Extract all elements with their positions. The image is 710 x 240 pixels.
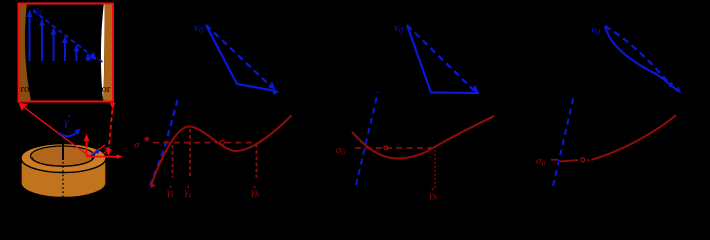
operating line (blue dashed) — [150, 100, 178, 186]
slip layer (white sliver) — [101, 3, 105, 101]
homogeneous profile (dashed) — [407, 25, 473, 90]
velocity arrow 6 — [87, 58, 89, 62]
velocity arrow 4 — [64, 41, 66, 61]
stator wall (right brown band) — [103, 3, 113, 102]
construction diagonal to z axis — [87, 145, 105, 157]
svg-text:σ: σ — [134, 139, 140, 151]
gamma_c guide — [189, 129, 191, 178]
dashed z-axis construction line — [109, 110, 113, 149]
z axis arrow (up) — [86, 139, 88, 157]
rotor wall (left brown wedge inside inset) — [19, 3, 31, 102]
gamma_l guide (dashed vertical) — [172, 145, 174, 178]
yield stress level (dashed) — [355, 147, 433, 149]
marker circle panel 3 — [581, 158, 585, 162]
velocity envelope (dashed) — [33, 11, 93, 57]
gamma_h guide (dotted vertical) — [434, 150, 436, 188]
velocity arrow 5 — [76, 50, 78, 62]
flow curve with minimum — [352, 116, 494, 159]
curved velocity profile (solid) — [605, 26, 679, 92]
stress plateau (dashed) — [153, 142, 252, 144]
banded velocity profile with static band (solid) — [407, 25, 479, 93]
shaft — [62, 136, 64, 160]
nonmonotonic flow curve — [151, 116, 292, 186]
cup rim (outer top ellipse) — [21, 144, 106, 173]
cup body — [21, 158, 106, 198]
velocity arrow 3 — [53, 33, 55, 62]
yield level dashes — [551, 159, 558, 161]
corner arrow (down) at box bottom-right — [110, 103, 116, 110]
rotation axis (dotted) — [62, 162, 64, 197]
cup inner wall ellipse — [31, 146, 95, 166]
theta arrow (small blue) — [92, 151, 98, 156]
svg-text:stator: stator — [87, 84, 111, 95]
homogeneous profile (dashed, bowed) — [605, 26, 670, 85]
velocity arrow 1 — [27, 10, 91, 62]
inner step arc (front lip) — [33, 158, 93, 167]
svg-text:z: z — [103, 142, 109, 157]
r axis arrow (right) — [87, 156, 119, 158]
monotonic flow curve — [592, 115, 677, 160]
marker circle on plateau — [221, 140, 225, 144]
homogeneous profile (dashed) — [206, 25, 270, 86]
operating line (blue dashed) — [356, 92, 378, 185]
marker circle on dashed level — [384, 146, 388, 150]
rotation arrow (blue arc) — [60, 132, 78, 136]
operating line (blue dashed) — [553, 96, 574, 187]
inset zoom box — [19, 4, 114, 102]
connector arrow to rotor surface — [21, 105, 62, 136]
connector line shaft to origin — [62, 136, 89, 156]
gamma_h guide — [256, 144, 258, 178]
velocity arrow 2 — [41, 24, 43, 61]
banded velocity profile (solid) — [206, 25, 276, 91]
svg-text:rotor: rotor — [21, 84, 42, 95]
